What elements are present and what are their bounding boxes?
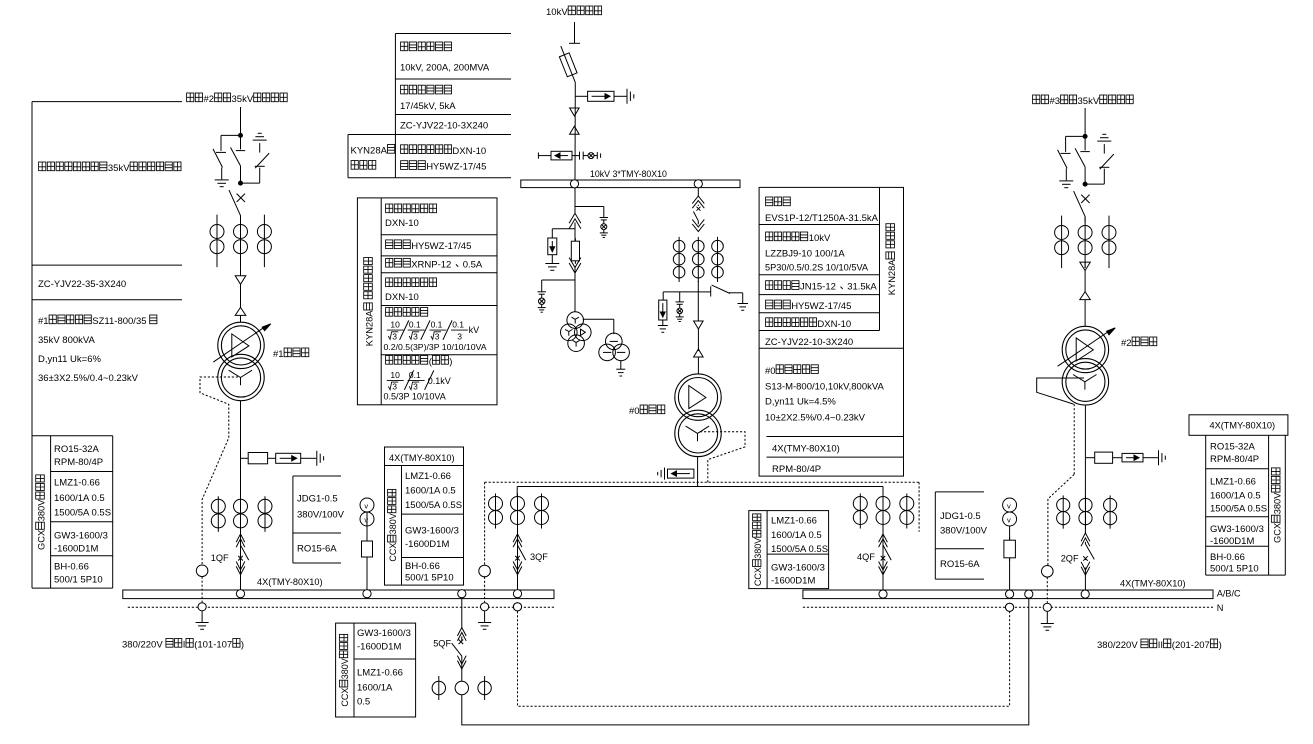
arrester branch left <box>663 291 698 293</box>
svg-text:LMZ1-0.66: LMZ1-0.66 <box>54 477 100 488</box>
LV breaker+arrester branch #2 <box>1085 457 1094 459</box>
svg-text:ZC-YJV22-35-3X240: ZC-YJV22-35-3X240 <box>38 279 126 290</box>
svg-text:-1600D1M: -1600D1M <box>771 575 815 586</box>
svg-text:HY5WZ-17/45: HY5WZ-17/45 <box>791 301 851 312</box>
PT feeder wire <box>574 188 576 214</box>
current transformers 3QF <box>495 494 497 529</box>
svg-text:JN15-12: JN15-12 <box>800 282 836 293</box>
svg-text:1500/5A 0.5S: 1500/5A 0.5S <box>54 508 111 519</box>
svg-text:4X(TMY-80X10): 4X(TMY-80X10) <box>389 453 455 463</box>
svg-text:10kV 3*TMY-80X10: 10kV 3*TMY-80X10 <box>590 169 667 179</box>
cable terminals to #0 transformer <box>694 321 704 329</box>
breaker 2QF <box>1081 533 1090 541</box>
drop-out fuse <box>561 46 576 82</box>
wire below fuse <box>574 82 576 180</box>
svg-text:KYN28A: KYN28A <box>365 310 375 346</box>
svg-text:kV: kV <box>469 325 480 335</box>
table KYN28A bus equipment cabinet <box>357 198 497 405</box>
neutral ground mid-left <box>484 611 486 622</box>
svg-text:10kV, 200A, 200MVA: 10kV, 200A, 200MVA <box>400 63 490 74</box>
svg-text:4X(TMY-80X10): 4X(TMY-80X10) <box>1120 579 1186 589</box>
svg-text:36±3X2.5%/0.4~0.23kV: 36±3X2.5%/0.4~0.23kV <box>38 373 139 384</box>
svg-text:CCX: CCX <box>388 543 398 562</box>
380V PT left (JDG1) <box>366 512 368 590</box>
svg-text:JDG1-0.5: JDG1-0.5 <box>940 511 981 522</box>
svg-text:): ) <box>1219 640 1222 651</box>
svg-text:#3: #3 <box>1050 96 1061 107</box>
svg-text:XRNP-12: XRNP-12 <box>411 259 451 270</box>
svg-text:380V: 380V <box>388 513 398 534</box>
svg-text:GW3-1600/3: GW3-1600/3 <box>357 628 411 639</box>
neutral flag #2 (solid then dashed) <box>1037 378 1084 404</box>
svg-text:3: 3 <box>413 382 418 392</box>
svg-text:1600/1A 0.5: 1600/1A 0.5 <box>771 530 822 541</box>
svg-text:-1600D1M: -1600D1M <box>54 543 98 554</box>
svg-text:LMZ1-0.66: LMZ1-0.66 <box>405 471 451 482</box>
CTs 5QF <box>438 676 440 700</box>
svg-text:DXN-10: DXN-10 <box>452 146 486 157</box>
svg-text:HY5WZ-17/45: HY5WZ-17/45 <box>411 241 471 252</box>
table CCX cabinet (middle, near 4QF) <box>749 511 829 589</box>
svg-text:1QF: 1QF <box>211 553 229 563</box>
bus II 380/220V section II <box>803 590 1213 599</box>
bus I junctions <box>236 590 244 598</box>
svg-text:RPM-80/4P: RPM-80/4P <box>1210 454 1259 465</box>
svg-text:GW3-1600/3: GW3-1600/3 <box>771 563 825 574</box>
svg-text:0.5: 0.5 <box>357 696 370 707</box>
svg-text:1500/5A 0.5S: 1500/5A 0.5S <box>771 544 828 555</box>
note: equipment list text <box>39 162 46 171</box>
breaker 3QF <box>517 528 519 590</box>
tie wire to bus II <box>462 598 1029 725</box>
svg-text:-1600D1M: -1600D1M <box>357 642 401 653</box>
svg-text:380/220V: 380/220V <box>122 640 163 651</box>
svg-text:SZ11-800/35: SZ11-800/35 <box>92 316 146 327</box>
table GCX cabinet (right) with 4X header <box>1189 415 1288 436</box>
breaker 5QF (bus tie) <box>461 598 463 628</box>
current transformers 1QF <box>217 496 219 532</box>
svg-text:RO15-6A: RO15-6A <box>940 559 980 570</box>
cable terminal upper <box>570 108 580 116</box>
svg-text:0.1kV: 0.1kV <box>428 376 451 386</box>
svg-text:#2: #2 <box>1121 338 1132 349</box>
svg-text:): ) <box>241 640 244 651</box>
svg-text:KYN28A: KYN28A <box>887 259 897 295</box>
dashed neutral flag of #0 <box>700 432 745 483</box>
svg-text:#1: #1 <box>273 349 284 360</box>
380V PT right (JDG1) <box>1009 526 1011 590</box>
neutral CT left <box>479 565 491 577</box>
svg-text:0.1: 0.1 <box>452 320 464 330</box>
wire to damping PT <box>583 318 614 320</box>
svg-text:31.5kA: 31.5kA <box>847 282 877 293</box>
table CCX cabinet (center, near 3QF) with 4X header <box>385 447 464 466</box>
svg-text:#0: #0 <box>765 366 776 377</box>
svg-text:0.2/0.5(3P)/3P 10/10/10VA: 0.2/0.5(3P)/3P 10/10/10VA <box>384 342 487 352</box>
table JDG1 PT (right 380V) <box>934 492 936 579</box>
transformer #2 station service <box>1062 326 1108 372</box>
svg-text:1600/1A 0.5: 1600/1A 0.5 <box>54 493 105 504</box>
svg-text:3QF: 3QF <box>530 552 548 562</box>
transformer #1 station service <box>218 322 264 368</box>
neutral ground right <box>1046 612 1048 623</box>
svg-text:(101-107: (101-107 <box>194 640 232 651</box>
svg-text:II: II <box>1158 640 1163 651</box>
left info box frame <box>31 102 33 588</box>
bus junction right <box>694 180 702 188</box>
svg-text:0.1: 0.1 <box>409 320 421 330</box>
live display branch (right) <box>575 206 604 208</box>
svg-text:10kV: 10kV <box>546 7 568 18</box>
svg-text:10±2X2.5%/0.4~0.23kV: 10±2X2.5%/0.4~0.23kV <box>765 412 866 423</box>
voltage transformer (4-winding PT) <box>567 312 584 329</box>
svg-text:5QF: 5QF <box>433 639 451 649</box>
svg-text:0.5/3P 10/10VA: 0.5/3P 10/10VA <box>384 391 446 401</box>
svg-text:BH-0.66: BH-0.66 <box>54 562 89 573</box>
breaker 4QF <box>882 528 884 590</box>
svg-text:RO15-6A: RO15-6A <box>297 544 337 555</box>
svg-text:10: 10 <box>390 370 400 380</box>
N junction redraw left <box>513 603 521 611</box>
svg-text:10kV: 10kV <box>809 233 831 244</box>
svg-text:v: v <box>364 501 368 510</box>
svg-text:#1: #1 <box>38 316 49 327</box>
table CCX cabinet (bottom, near 5QF) <box>336 623 416 717</box>
N line bus II (dashed) <box>803 606 1213 608</box>
withdrawable contact upper <box>569 213 581 223</box>
svg-text:RO15-32A: RO15-32A <box>1210 442 1256 453</box>
svg-text:#2: #2 <box>204 94 215 105</box>
svg-text:380/220V: 380/220V <box>1097 640 1138 651</box>
dashed N tie rectangle <box>518 611 1010 706</box>
svg-text:HY5WZ-17/45: HY5WZ-17/45 <box>426 162 486 173</box>
svg-text:380V: 380V <box>753 538 763 559</box>
svg-text:10: 10 <box>390 320 400 330</box>
surge arrester (zinc-oxide) branch <box>575 95 588 97</box>
neutral ground left <box>201 611 203 622</box>
svg-text:GCX: GCX <box>37 530 47 550</box>
svg-text:RPM-80/4P: RPM-80/4P <box>772 464 821 475</box>
cable terminal lower <box>570 126 580 134</box>
withdrawable contact lower <box>569 263 581 273</box>
arrester branch (left) <box>552 228 575 230</box>
svg-text:3: 3 <box>413 331 418 341</box>
svg-text:v: v <box>1007 515 1011 524</box>
live display on breaker feeder <box>679 292 681 302</box>
svg-text:N: N <box>1217 603 1224 613</box>
svg-text:380V: 380V <box>37 499 47 522</box>
bus II junctions <box>879 590 887 598</box>
N junction redraw right <box>1006 603 1014 611</box>
neutral CT #2 <box>1042 566 1054 578</box>
svg-text:S13-M-800/10,10kV,800kVA: S13-M-800/10,10kV,800kVA <box>765 382 884 393</box>
svg-text:#0: #0 <box>629 406 640 417</box>
svg-text:1600/1A: 1600/1A <box>357 682 393 693</box>
svg-text:4X(TMY-80X10): 4X(TMY-80X10) <box>1210 421 1276 431</box>
label: to #2 main transformer 35kV <box>187 93 194 102</box>
label: to #3 main transformer 35kV <box>1033 95 1040 104</box>
svg-text:GCX: GCX <box>1272 523 1282 543</box>
svg-text:35kV 800kVA: 35kV 800kVA <box>38 335 96 346</box>
transition cabinet devices (arrester + indicator) <box>537 153 539 159</box>
breaker 1QF <box>240 528 242 590</box>
svg-text:DXN-10: DXN-10 <box>385 218 419 229</box>
svg-text:380V/100V: 380V/100V <box>940 525 988 536</box>
PT fuse <box>574 238 576 264</box>
dashed PE drop left <box>484 482 486 565</box>
svg-text:500/1 5P10: 500/1 5P10 <box>54 575 103 586</box>
svg-text:GW3-1600/3: GW3-1600/3 <box>54 531 108 542</box>
svg-text:3: 3 <box>435 331 440 341</box>
svg-text:380V: 380V <box>1272 492 1282 515</box>
svg-text:0.5A: 0.5A <box>463 259 483 270</box>
svg-text:BH-0.66: BH-0.66 <box>405 561 440 572</box>
table KYN28A transition cabinet <box>395 33 511 35</box>
current transformers 4QF <box>859 494 861 529</box>
neutral CT #1 <box>196 565 208 577</box>
dashed neutral zigzag #1 <box>200 377 238 565</box>
svg-text:500/1 5P10: 500/1 5P10 <box>1210 564 1259 575</box>
dashed PE stub right <box>918 482 920 531</box>
svg-text:500/1 5P10: 500/1 5P10 <box>405 573 454 584</box>
svg-text:v: v <box>364 515 368 524</box>
wire incoming drop <box>574 22 576 43</box>
svg-text:ZC-YJV22-10-3X240: ZC-YJV22-10-3X240 <box>400 121 488 132</box>
earthing switch <box>698 291 710 293</box>
svg-text:17/45kV, 5kA: 17/45kV, 5kA <box>400 101 456 112</box>
svg-text:I: I <box>183 640 186 651</box>
svg-text:LZZBJ9-10 100/1A: LZZBJ9-10 100/1A <box>765 249 845 260</box>
LV breaker+arrester branch #1 <box>241 457 249 459</box>
svg-text:-1600D1M: -1600D1M <box>405 539 449 550</box>
svg-text:CCX: CCX <box>753 567 763 586</box>
LV lead #2 <box>1084 405 1086 534</box>
svg-text:3: 3 <box>392 331 397 341</box>
svg-text:35kV: 35kV <box>232 94 254 105</box>
svg-text:4QF: 4QF <box>857 552 875 562</box>
svg-text:0.1: 0.1 <box>431 320 443 330</box>
current transformers 2QF <box>1062 495 1064 528</box>
LV lead of #0 transformer <box>697 456 699 486</box>
svg-text:GW3-1600/3: GW3-1600/3 <box>405 526 459 537</box>
10kV main bus <box>521 180 740 188</box>
svg-text:0.1: 0.1 <box>409 370 421 380</box>
svg-text:DXN-10: DXN-10 <box>817 319 851 330</box>
table JDG1 PT (left 380V) <box>292 476 294 563</box>
table KYN28A incoming cabinet <box>759 187 903 476</box>
svg-text:380V: 380V <box>340 658 350 679</box>
svg-text:GW3-1600/3: GW3-1600/3 <box>1210 524 1264 535</box>
svg-text:ZC-YJV22-10-3X240: ZC-YJV22-10-3X240 <box>765 337 853 348</box>
3QF feeder drop <box>516 487 518 497</box>
svg-text:3: 3 <box>392 382 397 392</box>
svg-text:4X(TMY-80X10): 4X(TMY-80X10) <box>257 577 323 587</box>
neutral arrester of #0 <box>668 469 694 478</box>
svg-text:2QF: 2QF <box>1061 554 1079 564</box>
N junctions bus II <box>1006 603 1014 611</box>
live display branch 2 (left) <box>542 279 575 281</box>
svg-text:1500/5A 0.5S: 1500/5A 0.5S <box>1210 503 1267 514</box>
LV lead #1 <box>240 401 242 534</box>
incoming circuit breaker (withdrawable) <box>697 188 699 196</box>
voltage transformer (damping, 3-winding) <box>606 333 623 350</box>
svg-text:RO15-32A: RO15-32A <box>54 444 100 455</box>
N line bus I (dashed) <box>128 606 554 608</box>
svg-text:35kV: 35kV <box>108 163 130 174</box>
svg-text:D,yn11 Uk=4.5%: D,yn11 Uk=4.5% <box>765 397 836 408</box>
svg-text:35kV: 35kV <box>1078 96 1100 107</box>
35kV disconnector assembly left <box>240 107 242 135</box>
svg-text:1600/1A 0.5: 1600/1A 0.5 <box>405 485 456 496</box>
svg-text:BH-0.66: BH-0.66 <box>1210 552 1245 563</box>
svg-text:LMZ1-0.66: LMZ1-0.66 <box>771 516 817 527</box>
svg-text:3: 3 <box>457 331 462 341</box>
svg-text:DXN-10: DXN-10 <box>385 292 419 303</box>
table GCX 380V cabinet (left) <box>32 435 113 437</box>
transformer #0 station service <box>675 374 721 420</box>
svg-text:A/B/C: A/B/C <box>1217 589 1241 599</box>
svg-text:EVS1P-12/T1250A-31.5kA: EVS1P-12/T1250A-31.5kA <box>765 213 879 224</box>
svg-text:(201-207: (201-207 <box>1172 640 1210 651</box>
svg-text:D,yn11 Uk=6%: D,yn11 Uk=6% <box>38 354 101 365</box>
svg-text:LMZ1-0.66: LMZ1-0.66 <box>357 668 403 679</box>
bus junction left <box>570 180 578 188</box>
svg-text:4X(TMY-80X10): 4X(TMY-80X10) <box>772 443 840 454</box>
svg-text:1600/1A 0.5: 1600/1A 0.5 <box>1210 490 1261 501</box>
svg-text:v: v <box>1007 501 1011 510</box>
bus I 380/220V section I <box>123 590 554 599</box>
dashed PE line top <box>485 481 919 483</box>
svg-text:1500/5A 0.5S: 1500/5A 0.5S <box>405 500 462 511</box>
svg-text:): ) <box>449 357 452 368</box>
4QF feeder drop <box>882 487 884 497</box>
svg-text:CCX: CCX <box>340 688 350 707</box>
current transformers 3x3 <box>678 237 680 282</box>
solid LV feeder <box>517 486 883 488</box>
svg-text:-1600D1M: -1600D1M <box>1210 536 1254 547</box>
svg-text:380V/100V: 380V/100V <box>297 510 345 521</box>
35kV disconnector assembly right <box>1084 108 1086 136</box>
svg-text:5P30/0.5/0.2S 10/10/5VA: 5P30/0.5/0.2S 10/10/5VA <box>765 263 869 273</box>
svg-text:KYN28A: KYN28A <box>351 146 388 157</box>
svg-text:JDG1-0.5: JDG1-0.5 <box>297 493 338 504</box>
N junctions bus I <box>198 603 206 611</box>
svg-text:RPM-80/4P: RPM-80/4P <box>54 457 103 468</box>
svg-text:LMZ1-0.66: LMZ1-0.66 <box>1210 476 1256 487</box>
